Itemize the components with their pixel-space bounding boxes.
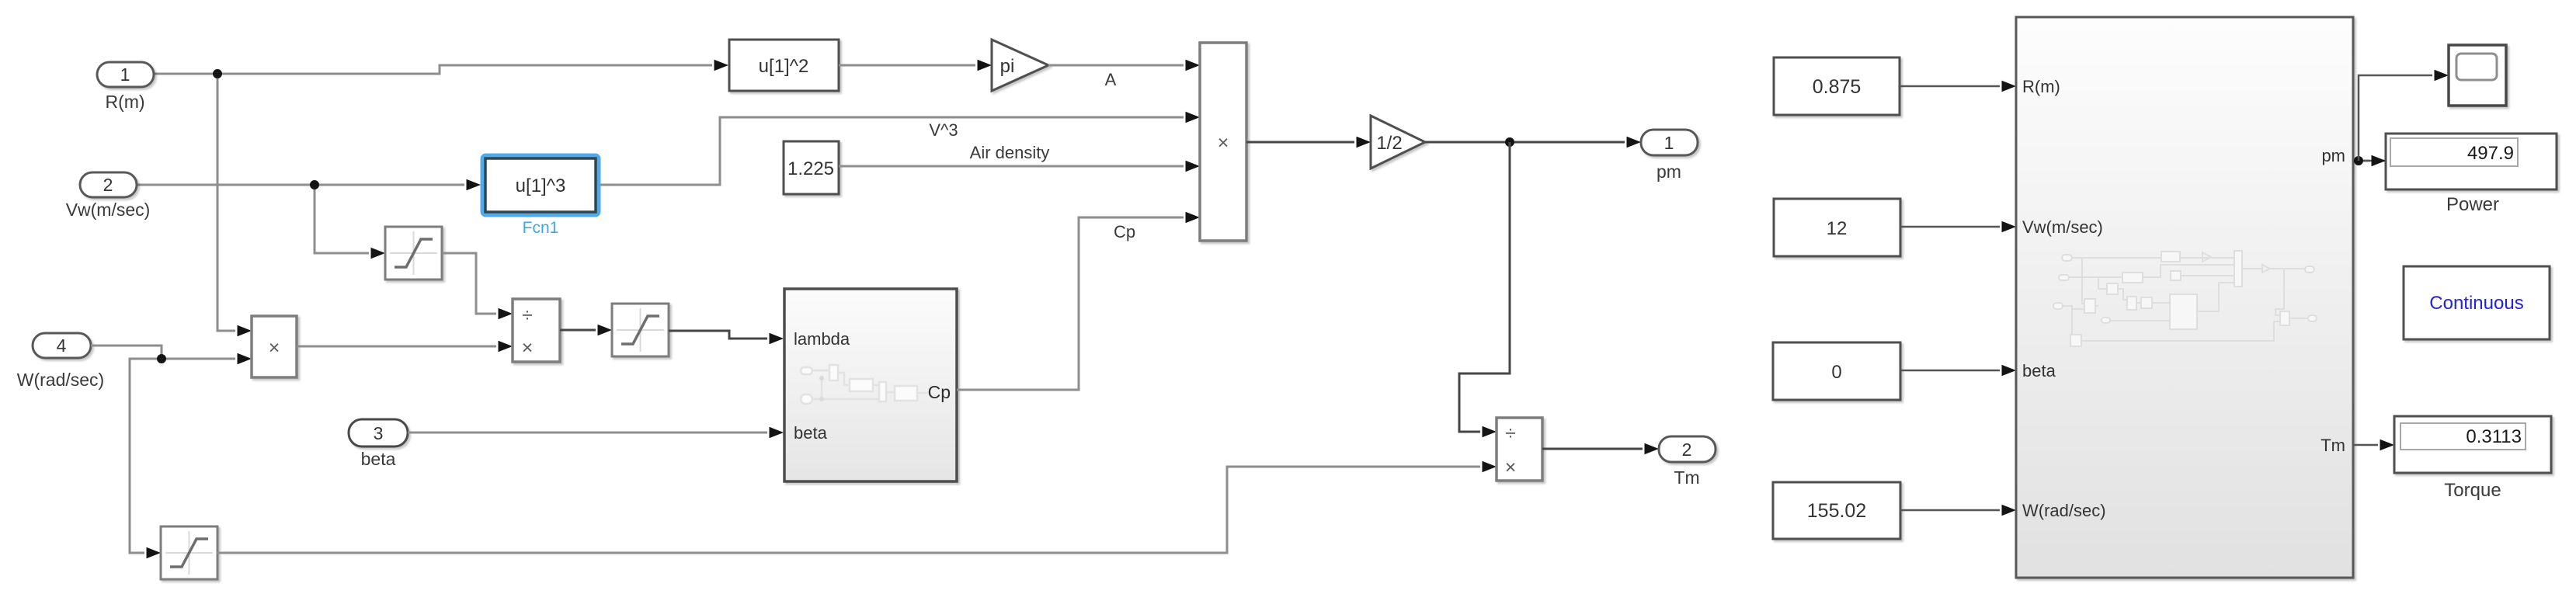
display Power 497.9 bbox=[2386, 134, 2557, 215]
svg-text:Cp: Cp bbox=[1114, 222, 1135, 241]
saturation Saturation2 bbox=[612, 304, 669, 356]
wire u[1]^2 to gain pi bbox=[839, 60, 992, 71]
saturation Saturation1 bbox=[385, 227, 442, 280]
scope bbox=[2449, 45, 2506, 106]
svg-text:÷: ÷ bbox=[1505, 422, 1516, 444]
wire Product1 to Divide1 bottom input bbox=[297, 341, 513, 352]
node junction on Vw wire bbox=[310, 180, 319, 189]
wire Tm to display Torque bbox=[2353, 439, 2394, 450]
svg-text:12: 12 bbox=[1827, 218, 1848, 239]
saturation Saturation3 bbox=[161, 526, 217, 579]
svg-text:1/2: 1/2 bbox=[1376, 133, 1402, 154]
svg-text:Torque: Torque bbox=[2444, 480, 2501, 501]
svg-text:Continuous: Continuous bbox=[2429, 293, 2523, 314]
wire Saturation3 to Divide2 bottom input bbox=[217, 461, 1497, 553]
svg-text:Fcn1: Fcn1 bbox=[523, 219, 559, 237]
wire Divide2 to outport Tm bbox=[1542, 443, 1659, 454]
svg-text:Vw(m/sec): Vw(m/sec) bbox=[66, 200, 151, 220]
svg-text:1.225: 1.225 bbox=[787, 158, 834, 179]
wire gain 1/2 to outport pm bbox=[1425, 137, 1641, 148]
faint inner model sketch bbox=[2053, 251, 2317, 346]
svg-text:÷: ÷ bbox=[522, 304, 533, 326]
constant 155.02 bbox=[1773, 482, 1900, 539]
wire 155.02 to subsystem W(rad/sec) bbox=[1900, 505, 2016, 516]
svg-text:3: 3 bbox=[374, 423, 384, 443]
svg-text:pi: pi bbox=[1000, 56, 1015, 77]
wire branch pm to Divide2 top input bbox=[1459, 142, 1510, 437]
wire Product to gain 1/2 bbox=[1246, 137, 1371, 148]
svg-text:0.3113: 0.3113 bbox=[2466, 426, 2522, 447]
subsystem wind turbine model bbox=[2016, 17, 2353, 578]
svg-text:pm: pm bbox=[1656, 162, 1681, 182]
inport 4 W(rad/sec) bbox=[17, 333, 104, 390]
svg-text:Power: Power bbox=[2446, 194, 2499, 215]
svg-text:Tm: Tm bbox=[1674, 467, 1699, 488]
svg-text:×: × bbox=[522, 337, 534, 359]
svg-text:R(m): R(m) bbox=[2022, 77, 2060, 96]
wire beta to subsystem beta input bbox=[408, 427, 784, 438]
constant 0 bbox=[1773, 342, 1900, 400]
subsystem Cp lookup (lambda,beta)->Cp bbox=[784, 289, 957, 481]
svg-text:Vw(m/sec): Vw(m/sec) bbox=[2022, 217, 2103, 237]
wire 0 to subsystem beta bbox=[1900, 365, 2016, 376]
svg-text:4: 4 bbox=[57, 335, 67, 356]
constant 0.875 bbox=[1774, 57, 1900, 115]
svg-text:beta: beta bbox=[2022, 361, 2056, 380]
svg-text:u[1]^3: u[1]^3 bbox=[516, 175, 566, 196]
gain pi bbox=[992, 40, 1048, 91]
divide Divide1 bbox=[513, 299, 560, 362]
svg-text:R(m): R(m) bbox=[105, 92, 144, 112]
display Torque 0.3113 bbox=[2394, 416, 2551, 501]
wire 12 to subsystem Vw(m/sec) bbox=[1900, 221, 2016, 232]
wire Divide1 to Saturation2 bbox=[560, 325, 612, 335]
svg-text:beta: beta bbox=[794, 423, 828, 443]
wire branch pm to scope bbox=[2359, 70, 2449, 161]
svg-text:lambda: lambda bbox=[794, 329, 850, 349]
fcn Fcn1 u[1]^3 highlighted bbox=[483, 156, 599, 238]
svg-text:155.02: 155.02 bbox=[1807, 500, 1866, 522]
product Product (4 inputs) bbox=[1200, 43, 1246, 241]
wire Cp output to Product (signal Cp) bbox=[957, 212, 1200, 390]
inport 3 beta bbox=[349, 419, 408, 469]
svg-text:×: × bbox=[269, 337, 280, 359]
svg-text:1: 1 bbox=[1664, 133, 1674, 153]
inport 2 Vw(m/sec) bbox=[66, 172, 151, 220]
wire 0.875 to subsystem R(m) bbox=[1900, 81, 2016, 92]
wire branch W to Saturation3 bbox=[130, 359, 162, 558]
svg-text:W(rad/sec): W(rad/sec) bbox=[17, 370, 104, 390]
wire 1.225 to Product (signal Air density) bbox=[839, 143, 1200, 172]
svg-text:beta: beta bbox=[361, 449, 396, 469]
node junction on W wire bbox=[157, 354, 166, 363]
wire Saturation2 to subsystem lambda input bbox=[669, 331, 784, 344]
svg-text:A: A bbox=[1105, 70, 1117, 89]
svg-text:pm: pm bbox=[2321, 146, 2345, 165]
wire R(m) main run bbox=[154, 60, 728, 74]
inport 1 R(m) bbox=[97, 62, 154, 112]
node junction on pm output bbox=[2354, 156, 2363, 165]
fcn block u[1]^2 bbox=[729, 40, 839, 91]
constant 1.225 bbox=[784, 141, 839, 194]
wire Vw main run bbox=[137, 179, 481, 190]
svg-text:0: 0 bbox=[1831, 362, 1841, 383]
divide Divide2 bbox=[1497, 418, 1542, 481]
product Product1 bbox=[252, 316, 297, 377]
svg-text:2: 2 bbox=[1682, 439, 1692, 460]
node junction on pm wire bbox=[1505, 137, 1514, 147]
svg-text:497.9: 497.9 bbox=[2467, 143, 2514, 164]
wire branch Vw to Saturation1 bbox=[315, 185, 385, 259]
wire W to Product1 bottom input bbox=[91, 346, 252, 364]
svg-text:0.875: 0.875 bbox=[1813, 76, 1862, 98]
wire Saturation1 to Divide1 top input bbox=[442, 253, 513, 319]
wire Fcn1 to Product (signal V^3) bbox=[600, 112, 1200, 185]
svg-text:1: 1 bbox=[120, 64, 130, 85]
gain 1/2 bbox=[1371, 116, 1425, 168]
wire pm output bbox=[2353, 155, 2386, 166]
outport 2 Tm bbox=[1659, 436, 1716, 488]
outport 1 pm bbox=[1641, 130, 1698, 182]
svg-text:u[1]^2: u[1]^2 bbox=[759, 56, 809, 77]
constant 12 bbox=[1774, 199, 1900, 256]
svg-text:×: × bbox=[1218, 132, 1229, 154]
node junction on R wire bbox=[213, 69, 222, 78]
svg-text:Tm: Tm bbox=[2320, 436, 2345, 455]
wire branch R to Product1 top input bbox=[217, 74, 252, 336]
svg-text:Air density: Air density bbox=[970, 143, 1050, 162]
svg-text:×: × bbox=[1505, 457, 1517, 478]
svg-text:2: 2 bbox=[103, 175, 113, 195]
wire gain pi to Product (signal A) bbox=[1048, 60, 1200, 89]
svg-text:Cp: Cp bbox=[928, 382, 951, 402]
svg-text:V^3: V^3 bbox=[929, 120, 958, 140]
svg-text:W(rad/sec): W(rad/sec) bbox=[2022, 501, 2106, 520]
powergui Continuous bbox=[2404, 266, 2550, 339]
